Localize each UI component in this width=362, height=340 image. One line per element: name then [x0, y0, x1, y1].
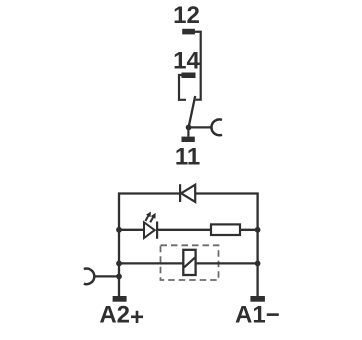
wire left rail and top wire left segment: [119, 194, 180, 297]
node 11 junction: [186, 125, 192, 131]
middle wire segment right: [240, 229, 258, 231]
svg-text:A2+: A2+: [99, 302, 144, 331]
bottom wire segment left: [119, 262, 183, 264]
LED cathode bar: [156, 222, 158, 239]
resistor R1: [211, 224, 240, 235]
middle wire segment center: [157, 229, 211, 231]
relay coil K1 body: [183, 250, 195, 275]
middle wire segment left: [119, 229, 144, 231]
LED triangle: [144, 222, 155, 238]
junction dot right bottom: [255, 261, 261, 267]
terminal A1 bar: [250, 296, 265, 302]
bottom wire segment right: [196, 262, 258, 264]
terminal 11 bar: [182, 137, 195, 142]
wire node 11 to terminal 11: [187, 127, 189, 136]
wire node 11 to plug: [189, 126, 212, 128]
junction dot left middle: [116, 227, 122, 233]
wire plug to left rail: [94, 275, 119, 277]
relay coil K1 diagonal: [184, 258, 195, 268]
svg-text:A1−: A1−: [235, 302, 280, 329]
diode V1 triangle: [181, 185, 195, 202]
terminal 14 bar: [182, 73, 196, 79]
svg-text:11: 11: [175, 143, 200, 170]
contact arm 11-12: [189, 96, 196, 127]
wire 14 to fixed contact: [179, 75, 186, 100]
terminal 12 bar: [182, 29, 195, 35]
diode V1 cathode bar: [179, 184, 181, 202]
LED arrow 2: [150, 213, 156, 223]
plug socket symbol bottom: [84, 269, 94, 285]
svg-text:14: 14: [173, 48, 200, 75]
junction dot left bottom: [116, 261, 122, 267]
terminal A2 bar: [113, 296, 127, 302]
svg-text:12: 12: [173, 2, 200, 29]
LED arrow 1: [145, 212, 151, 222]
plug socket symbol top: [211, 119, 222, 135]
wire 12 to fixed contact: [195, 32, 201, 100]
junction dot left plug: [116, 274, 122, 280]
wire right rail and top wire right segment: [195, 194, 258, 297]
junction dot right middle: [255, 227, 261, 233]
dashed relay outline box: [161, 245, 219, 280]
